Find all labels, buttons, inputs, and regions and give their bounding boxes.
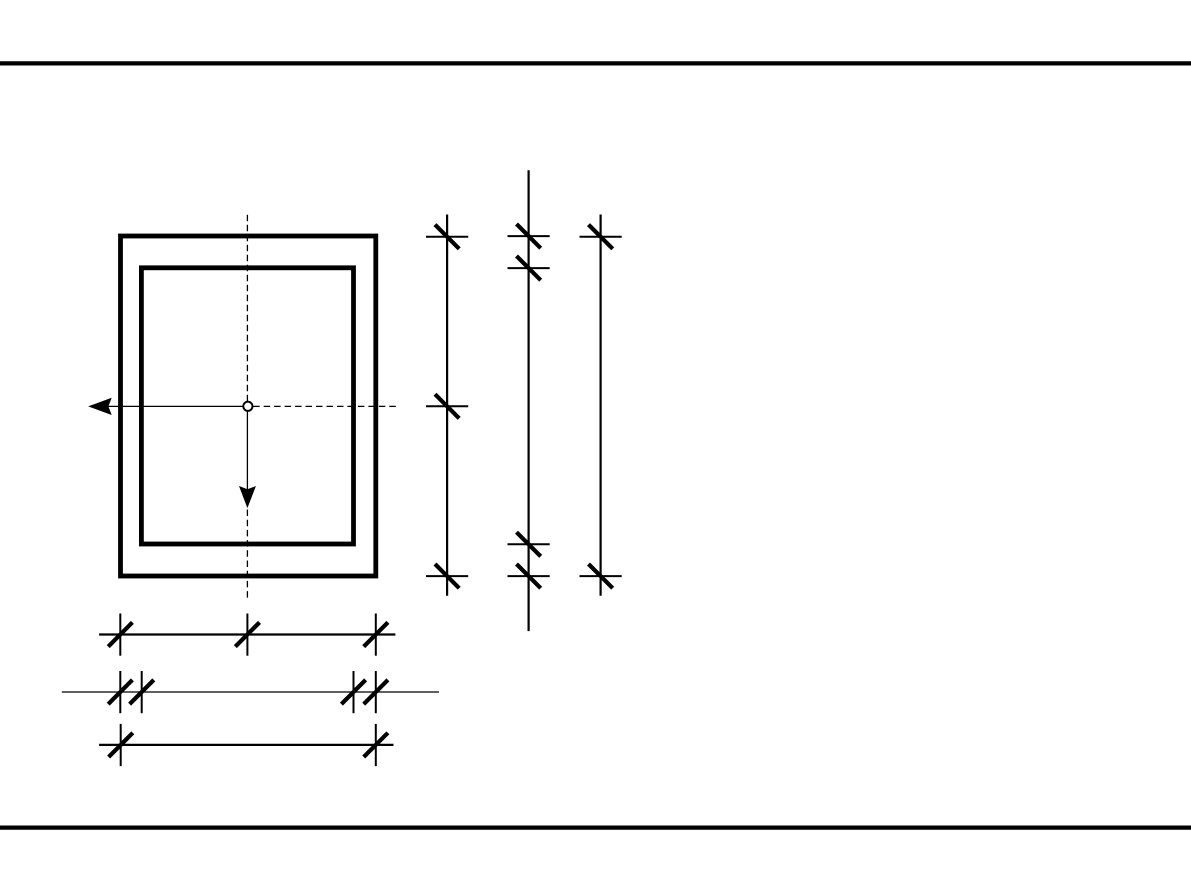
dim1 tick bottom bar xyxy=(426,575,468,577)
bottom page rule xyxy=(0,825,1191,829)
dim1 tick mid slash xyxy=(435,394,459,418)
dimA tick mid bar xyxy=(246,614,248,656)
dimB tick inner-right bar xyxy=(353,671,355,713)
dim2 tick outer-bottom bar xyxy=(508,575,550,577)
dim1 tick mid bar xyxy=(426,405,468,407)
horizontal dimension line C xyxy=(99,744,393,746)
horizontal axis solid segment xyxy=(108,405,243,407)
vertical dimension line 1 xyxy=(446,215,448,596)
vertical dimension line 3 xyxy=(599,215,601,596)
dim2 tick outer-top slash xyxy=(517,224,541,248)
dimB tick outer-left slash xyxy=(108,680,132,704)
top page rule xyxy=(0,61,1191,65)
dim3 tick bottom slash xyxy=(589,564,613,588)
dimA tick right bar xyxy=(375,614,377,656)
dimC tick right bar xyxy=(375,724,377,766)
dim3 tick bottom bar xyxy=(580,575,622,577)
dim1 tick top slash xyxy=(435,225,459,249)
dim2 tick inner-top slash xyxy=(517,256,541,280)
dimA tick mid slash xyxy=(235,622,259,646)
dimC tick right slash xyxy=(364,733,388,757)
dim2 tick inner-top bar xyxy=(508,267,550,269)
dim2 tick outer-bottom slash xyxy=(517,564,541,588)
dimA tick right slash xyxy=(364,622,388,646)
dimB tick outer-right bar xyxy=(375,671,377,713)
vertical dimension line 2 xyxy=(527,170,529,631)
dimA tick left slash xyxy=(108,622,132,646)
arrow head down (z axis) xyxy=(239,486,256,508)
dim3 tick top slash xyxy=(589,225,613,249)
vertical centerline dashed lower xyxy=(246,510,248,598)
arrow head left (y axis) xyxy=(88,398,112,415)
dimB tick inner-left slash xyxy=(130,680,154,704)
inner section outline xyxy=(141,268,353,544)
dimB tick outer-left bar xyxy=(119,671,121,713)
dim2 tick outer-top bar xyxy=(508,235,550,237)
dimC tick left bar xyxy=(120,724,122,766)
dimB tick inner-right slash xyxy=(341,680,365,704)
dim3 tick top bar xyxy=(580,236,622,238)
dimC tick left slash xyxy=(109,733,133,757)
dimB tick inner-left bar xyxy=(141,671,143,713)
dimB tick outer-right slash xyxy=(364,680,388,704)
dim2 tick inner-bottom bar xyxy=(508,543,550,545)
dim2 tick inner-bottom slash xyxy=(517,532,541,556)
dim1 tick top bar xyxy=(426,236,468,238)
dimA tick left bar xyxy=(119,614,121,656)
outer section outline xyxy=(121,236,376,576)
dim1 tick bottom slash xyxy=(435,564,459,588)
horizontal dimension line A xyxy=(99,633,395,635)
vertical centerline dashed upper xyxy=(246,215,248,402)
vertical axis solid segment xyxy=(246,411,248,490)
centroid circle xyxy=(243,402,252,411)
horizontal dimension line B xyxy=(62,691,439,693)
horizontal centerline dashed right xyxy=(253,405,396,407)
